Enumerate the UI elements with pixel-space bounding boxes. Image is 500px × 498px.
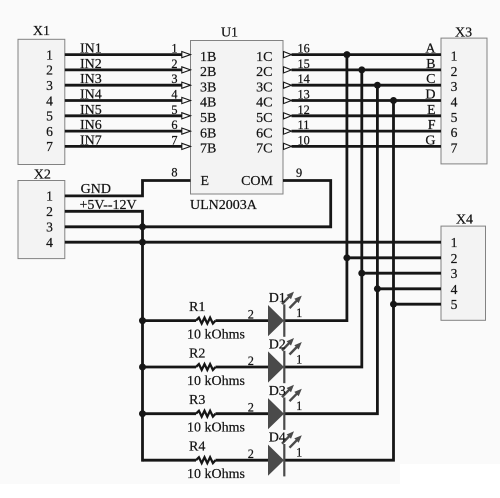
wire 2C drop to D2 cathode [285,70,362,367]
svg-text:D3: D3 [269,384,286,399]
wire X1 pin 6 to U1 6B [65,130,182,133]
svg-text:2: 2 [451,251,458,266]
junction drop 1 x X4 pin 2 [343,254,350,261]
svg-text:COM: COM [241,174,273,189]
wire X1 pin 1 to U1 1B [65,53,182,56]
wire X1 pin 2 to U1 2B [65,69,182,72]
wire X2 pin 4 to X4 pin 1 [65,241,441,244]
svg-text:U1: U1 [221,25,238,40]
U1 output arrowhead pin 12 [284,113,292,119]
svg-text:1C: 1C [256,50,272,65]
svg-text:ULN2003A: ULN2003A [190,198,258,213]
svg-text:7: 7 [451,140,458,155]
svg-text:1: 1 [451,235,458,250]
svg-text:2: 2 [248,401,254,415]
LED D2 light arrows [282,343,290,351]
wire R4 to D4 anode [216,459,269,462]
svg-text:10 kOhms: 10 kOhms [187,467,245,482]
svg-text:2C: 2C [256,65,272,80]
svg-text:IN6: IN6 [80,118,102,133]
svg-text:X1: X1 [33,24,50,39]
resistor R3 zigzag [196,411,216,417]
connector X3 [441,38,487,164]
junction bus x R3 line [139,410,146,417]
svg-text:5C: 5C [256,111,272,126]
svg-text:8: 8 [171,165,177,179]
svg-text:4: 4 [451,282,458,297]
wire X1 pin 7 to U1 7B [65,145,182,148]
wire 4C drop to D4 cathode [285,101,394,461]
svg-text:1: 1 [296,352,302,366]
svg-text:E: E [427,103,436,118]
U1 output arrowhead pin 13 [284,97,292,103]
svg-text:9: 9 [296,166,302,180]
svg-text:IN2: IN2 [80,57,102,72]
U1 input arrowhead pin 6 [182,128,191,134]
svg-text:13: 13 [298,88,310,102]
svg-text:1: 1 [451,49,458,64]
wire bus to R4 [143,459,197,462]
svg-text:5: 5 [451,297,458,312]
wire X4 pin 5 [394,303,442,306]
svg-text:3: 3 [46,220,53,235]
U1 input arrowhead pin 2 [182,67,191,73]
wire X4 pin 2 [347,256,441,259]
svg-text:1: 1 [171,42,177,56]
svg-text:10 kOhms: 10 kOhms [187,374,245,389]
svg-text:IN1: IN1 [80,42,102,57]
svg-text:1B: 1B [200,50,216,65]
svg-text:10: 10 [298,133,310,147]
U1 input arrowhead pin 7 [182,143,191,149]
U1 input arrowhead pin 4 [182,97,191,103]
connector X4 [441,226,486,320]
wire X1 pin 4 to U1 4B [65,99,182,102]
svg-text:7: 7 [171,133,177,147]
wire U1 7C to X3 pin 7 [292,145,442,148]
svg-text:E: E [201,174,210,189]
LED D2 [268,351,284,382]
wire 3C drop to D3 cathode [285,85,377,414]
svg-text:X2: X2 [34,167,51,182]
wire U1 3C to X3 pin 3 [292,84,442,87]
svg-text:6: 6 [171,118,177,132]
junction bus x R2 line [139,364,146,371]
svg-text:A: A [425,42,436,57]
svg-text:6: 6 [46,124,53,139]
wire U1 COM pin 9 to X2 pin 3 [65,181,331,227]
svg-text:C: C [426,72,435,87]
resistor R4 zigzag [196,457,216,463]
wire X1 pin 5 to U1 5B [65,114,182,117]
junction bus x R1 line [139,317,146,324]
U1 input arrowhead pin 1 [182,52,191,58]
svg-text:2B: 2B [200,65,216,80]
svg-text:1: 1 [46,47,53,62]
U1 output arrowhead pin 15 [284,67,292,73]
LED D4 light arrows [282,436,290,444]
junction 4C output x drop [390,97,397,104]
svg-text:D: D [425,88,435,103]
svg-text:R4: R4 [189,440,205,455]
svg-text:2: 2 [46,63,53,78]
wire R1 to D1 anode [216,319,269,322]
svg-text:2: 2 [451,64,458,79]
svg-text:4B: 4B [200,96,216,111]
svg-text:5: 5 [451,110,458,125]
junction 2C output x drop [358,66,365,73]
svg-text:1: 1 [296,446,302,460]
svg-text:4: 4 [46,235,53,250]
svg-text:X3: X3 [455,26,472,41]
svg-text:IN3: IN3 [80,72,102,87]
U1 input arrowhead pin 3 [182,82,191,88]
wire GND from X2 pin 1 to U1 E pin 8 [65,181,191,196]
wire 1C drop to D1 cathode [285,55,347,321]
svg-text:2: 2 [46,204,53,219]
junction drop 2 x X4 pin 3 [358,270,365,277]
svg-text:+5V--12V: +5V--12V [80,198,137,213]
svg-text:R1: R1 [189,300,205,315]
LED D3 light arrows [282,389,290,397]
svg-text:10 kOhms: 10 kOhms [187,421,245,436]
svg-text:IN5: IN5 [80,103,102,118]
wire R3 to D3 anode [216,412,269,415]
svg-text:3C: 3C [256,80,272,95]
svg-text:6B: 6B [200,126,216,141]
svg-text:4: 4 [46,93,53,108]
svg-text:R2: R2 [189,346,205,361]
svg-text:D1: D1 [269,291,286,306]
resistor R2 zigzag [196,364,216,370]
LED D1 light arrows [282,296,290,304]
svg-text:3: 3 [46,78,53,93]
svg-text:F: F [428,118,436,133]
svg-text:3B: 3B [200,80,216,95]
svg-text:2: 2 [248,447,254,461]
wire X4 pin 4 [377,287,441,290]
wire bus to R3 [143,412,197,415]
svg-text:X4: X4 [456,212,473,227]
svg-text:6: 6 [451,125,458,140]
svg-text:7: 7 [46,139,53,154]
U1 input arrowhead pin 5 [182,113,191,119]
junction 1C output x drop [343,51,350,58]
svg-text:7B: 7B [200,142,216,157]
svg-text:15: 15 [298,57,310,71]
svg-text:14: 14 [298,72,310,86]
junction drop 4 x X4 pin 5 [390,301,397,308]
U1 output arrowhead pin 10 [284,143,292,149]
svg-text:3: 3 [451,266,458,281]
junction drop 3 x X4 pin 4 [374,285,381,292]
svg-text:5B: 5B [200,111,216,126]
svg-text:5: 5 [171,103,177,117]
junction bus x pin4 line [139,239,146,246]
resistor R1 zigzag [196,318,216,324]
svg-text:D4: D4 [269,431,286,446]
svg-text:GND: GND [81,182,111,197]
op-amp U1 ULN2003A body [191,41,284,195]
svg-text:1: 1 [296,399,302,413]
svg-text:12: 12 [298,103,310,117]
connector X1 [18,39,65,164]
svg-text:1: 1 [296,306,302,320]
svg-text:4C: 4C [256,96,272,111]
svg-text:1: 1 [46,189,53,204]
svg-text:16: 16 [298,42,310,56]
svg-text:D2: D2 [269,337,286,352]
wire X4 pin 3 [362,272,441,275]
wire +5V from X2 pin 2 down bus [65,211,143,461]
svg-text:3: 3 [451,79,458,94]
svg-text:11: 11 [298,118,310,132]
svg-text:G: G [425,133,435,148]
connector X2 [18,181,65,259]
svg-text:R3: R3 [189,393,205,408]
svg-text:10 kOhms: 10 kOhms [187,327,245,342]
wire R2 to D2 anode [216,366,269,369]
svg-text:5: 5 [46,109,53,124]
U1 output arrowhead pin 16 [284,52,292,58]
svg-text:2: 2 [248,354,254,368]
wire U1 1C to X3 pin 1 [292,53,442,56]
U1 output arrowhead pin 14 [284,82,292,88]
LED D4 [268,445,284,476]
wire U1 2C to X3 pin 2 [292,69,442,72]
junction bus x pin3 line [139,223,146,230]
svg-text:2: 2 [248,307,254,321]
svg-text:3: 3 [171,72,177,86]
LED D1 [268,305,284,336]
svg-text:B: B [426,57,435,72]
wire X1 pin 3 to U1 3B [65,84,182,87]
wire bus to R1 [143,319,197,322]
svg-text:7C: 7C [256,142,272,157]
wire U1 5C to X3 pin 5 [292,114,442,117]
U1 output arrowhead pin 11 [284,128,292,134]
wire U1 4C to X3 pin 4 [292,99,442,102]
svg-text:6C: 6C [256,126,272,141]
junction 3C output x drop [374,82,381,89]
svg-text:4: 4 [451,95,458,110]
svg-text:2: 2 [171,57,177,71]
svg-text:IN7: IN7 [80,133,102,148]
svg-text:4: 4 [171,88,177,102]
LED D3 [268,398,284,429]
svg-text:IN4: IN4 [80,88,102,103]
wire U1 6C to X3 pin 6 [292,130,442,133]
wire bus to R2 [143,366,197,369]
